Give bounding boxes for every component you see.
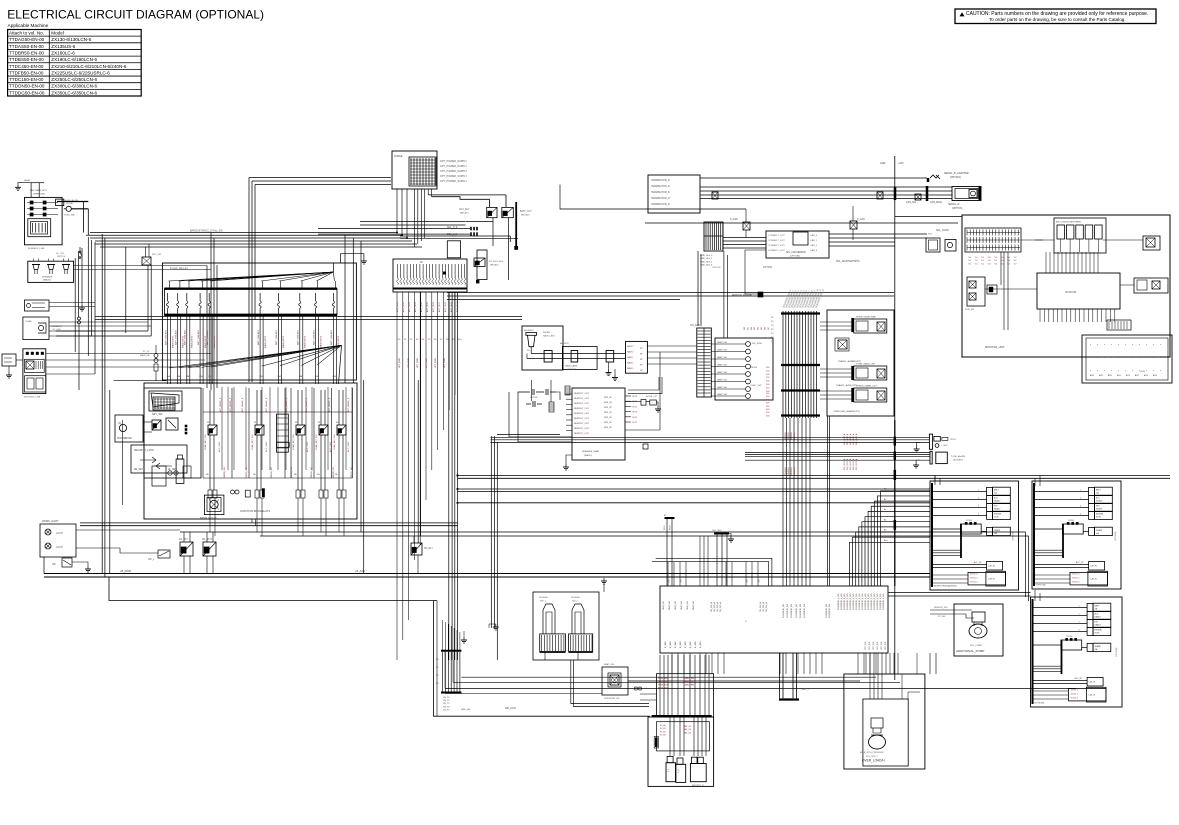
- svg-text:MAIN_KEY2: MAIN_KEY2: [213, 335, 216, 348]
- vertical x364: [363, 380, 365, 574]
- svg-text:ACC_SIG2: ACC_SIG2: [408, 301, 411, 312]
- pedal outputs down: [571, 660, 649, 704]
- svg-text:READY: READY: [994, 508, 1001, 511]
- svg-text:SIG_OUT_A: SIG_OUT_A: [843, 433, 846, 445]
- wires B3 right: [46, 353, 211, 355]
- svg-text:ROW: ROW: [1096, 517, 1101, 519]
- pedal unit outer box: [533, 592, 599, 660]
- svg-text:PRESSURE_SW: PRESSURE_SW: [604, 698, 619, 700]
- svg-text:GND_SIG_1: GND_SIG_1: [700, 258, 713, 260]
- svg-text:o: o: [1118, 344, 1120, 346]
- inner left spine verticals: [74, 258, 76, 352]
- svg-text:RESPULT_OUT: RESPULT_OUT: [574, 398, 590, 400]
- svg-text:LIGHT: LIGHT: [56, 547, 63, 549]
- harness bottom pins: [671, 653, 673, 674]
- svg-text:ACC_RELAY_S: ACC_RELAY_S: [265, 397, 268, 412]
- svg-text:+B_MAIN: +B_MAIN: [120, 569, 131, 573]
- svg-text:BAT_LN: BAT_LN: [684, 731, 692, 734]
- svg-text:o: o: [1132, 370, 1134, 372]
- inline connector r3: [606, 351, 614, 363]
- svg-text:OPT_PWR: OPT_PWR: [417, 358, 419, 368]
- svg-text:FL_B3: FL_B3: [660, 735, 666, 737]
- keypad grid: [149, 391, 182, 411]
- svg-text:MONITOR: MONITOR: [1065, 291, 1077, 294]
- svg-text:SPEAKER_MAIN: SPEAKER_MAIN: [582, 450, 599, 453]
- svg-text:AM_IN(P): AM_IN(P): [560, 342, 569, 345]
- svg-text:+24V: +24V: [898, 162, 904, 165]
- svg-text:ACC_RLY: ACC_RLY: [459, 208, 470, 211]
- svg-text:SOL_ADAPTER*OPTA: SOL_ADAPTER*OPTA: [836, 260, 860, 263]
- svg-text:4: 4: [978, 513, 979, 515]
- svg-text:AUX: AUX: [1144, 374, 1149, 377]
- svg-text:OPT_PWR: OPT_PWR: [426, 358, 428, 368]
- bus 522 corner verticals: [251, 519, 253, 523]
- svg-text:CN_SIG_A: CN_SIG_A: [759, 601, 762, 612]
- relay panel box: [144, 383, 357, 519]
- svg-text:GA: GA: [994, 492, 997, 495]
- svg-text:SIG: SIG: [766, 381, 770, 383]
- fuse panel bus: [652, 715, 712, 717]
- svg-text:ACC_SP: ACC_SP: [1076, 561, 1084, 564]
- svg-text:SWITCH: SWITCH: [57, 256, 66, 258]
- ECU right output chain: [625, 401, 641, 403]
- svg-text:SW_L: SW_L: [148, 559, 155, 561]
- svg-text:FL22: FL22: [670, 525, 672, 530]
- connector strip bottom left: [441, 650, 461, 652]
- svg-text:WIPER_SIG: WIPER_SIG: [224, 466, 226, 478]
- svg-text:S0: S0: [436, 659, 439, 661]
- spine splice nodes: [894, 437, 896, 446]
- svg-text:BATT_RELAY5: BATT_RELAY5: [175, 329, 178, 345]
- svg-text:OUT_SIG: OUT_SIG: [885, 641, 887, 650]
- svg-text:GNDSIG: GNDSIG: [791, 467, 793, 475]
- left spine verticals: [210, 233, 212, 391]
- bundle drops below: [782, 418, 784, 586]
- terminator arrow: [927, 178, 929, 182]
- svg-text:RADIO_ANT: RADIO_ANT: [543, 335, 556, 338]
- radio amp box: [562, 347, 597, 370]
- svg-text:EX_KEYLESS: EX_KEYLESS: [489, 261, 504, 263]
- connector on vert up c4: [743, 222, 750, 230]
- svg-text:SOLENOID_SIG: SOLENOID_SIG: [826, 603, 828, 618]
- svg-text:AUX: AUX: [1126, 374, 1131, 377]
- svg-text:SOLENOID_SIG: SOLENOID_SIG: [796, 603, 798, 618]
- svg-text:SUB_SW: SUB_SW: [965, 309, 975, 311]
- svg-text:CONNECT_OUT: CONNECT_OUT: [768, 250, 785, 252]
- svg-text:ZX130-6/130LCN-6: ZX130-6/130LCN-6: [51, 37, 91, 42]
- option box 3: [1031, 597, 1123, 707]
- svg-text:GND_SIG: GND_SIG: [687, 601, 689, 610]
- svg-text:SIG: SIG: [766, 412, 770, 414]
- svg-text:TTDC450-EN-00: TTDC450-EN-00: [9, 64, 44, 69]
- svg-text:AIR_CON: AIR_CON: [505, 707, 516, 710]
- svg-text:MAIN_KEY2: MAIN_KEY2: [171, 335, 174, 348]
- fanout under connector: [396, 292, 398, 660]
- small box above connector: [447, 241, 460, 258]
- svg-text:GNDSIG: GNDSIG: [785, 467, 787, 475]
- panel right parallel line: [360, 383, 362, 532]
- svg-text:ACC_RELAY_S: ACC_RELAY_S: [219, 397, 222, 412]
- svg-text:Tx6: Tx6: [1007, 257, 1010, 259]
- svg-text:SW_SIDE: SW_SIDE: [752, 343, 762, 345]
- svg-text:(OPTION): (OPTION): [1116, 647, 1118, 657]
- svg-text:TERMINATOR_R: TERMINATOR_R: [651, 179, 670, 182]
- svg-text:P8: P8: [527, 350, 530, 352]
- svg-text:RESPULT_OUT: RESPULT_OUT: [574, 428, 590, 430]
- svg-text:BATT_RELAY5: BATT_RELAY5: [197, 329, 200, 345]
- svg-text:CIGAR: CIGAR: [25, 320, 32, 323]
- wires below transformer: [413, 189, 415, 247]
- svg-text:SIG: SIG: [766, 384, 770, 386]
- svg-text:(RELAY): (RELAY): [460, 212, 469, 215]
- svg-text:SPK_IN: SPK_IN: [604, 412, 612, 414]
- fuse cartridge 2: [676, 764, 686, 782]
- svg-text:5A: 5A: [335, 473, 338, 476]
- pedal A comb: [540, 634, 566, 652]
- relay group pair down: [827, 416, 829, 586]
- svg-text:3: 3: [978, 505, 979, 507]
- long bus y532: [180, 531, 1026, 533]
- left bus lines to top center: [90, 232, 397, 234]
- relay cluster: [208, 425, 217, 435]
- overload feeds: [865, 653, 867, 674]
- svg-text:LIGHT: LIGHT: [56, 533, 63, 535]
- svg-text:SIG_OUT_A: SIG_OUT_A: [855, 433, 858, 445]
- monitor sub box left bottom: [967, 277, 985, 306]
- svg-text:1: 1: [1079, 605, 1080, 607]
- bottom boundary frame: [433, 601, 649, 717]
- svg-text:FUSE_SIG1: FUSE_SIG1: [658, 681, 668, 683]
- svg-text:30A: 30A: [277, 375, 281, 378]
- svg-text:WIPER_SIG: WIPER_SIG: [333, 466, 335, 478]
- monitor main display: [1037, 273, 1120, 309]
- svg-text:RESPULT_OUT: RESPULT_OUT: [574, 433, 590, 435]
- verticals feeding option boxes: [934, 476, 936, 486]
- keyless box B3: [23, 349, 46, 394]
- svg-text:(RADIO): (RADIO): [584, 454, 592, 457]
- cab comb connector: [697, 328, 712, 397]
- svg-text:o: o: [1090, 370, 1092, 372]
- svg-text:OPTION: OPTION: [763, 266, 772, 269]
- svg-text:AUX: AUX: [1099, 374, 1104, 377]
- fuse elements: [167, 293, 169, 301]
- svg-text:Tx3: Tx3: [988, 263, 991, 265]
- svg-text:ENGINE: ENGINE: [1096, 514, 1104, 516]
- svg-text:o: o: [1132, 344, 1134, 346]
- svg-text:(A): (A): [118, 422, 121, 425]
- display bottom pins: [1039, 309, 1041, 322]
- speaker box: [28, 261, 74, 282]
- svg-text:ZX190LC-6/190LCN-6: ZX190LC-6/190LCN-6: [51, 57, 97, 62]
- svg-text:RADIO: RADIO: [627, 351, 634, 354]
- svg-text:GND_SIG: GND_SIG: [669, 601, 671, 610]
- svg-text:TRAVEL_ALM2(OPT): TRAVEL_ALM2(OPT): [836, 384, 858, 387]
- svg-text:ACC_RELAY_S: ACC_RELAY_S: [328, 397, 331, 412]
- svg-text:DIODE: DIODE: [1068, 520, 1075, 522]
- svg-text:ACC_SIG2: ACC_SIG2: [347, 441, 350, 452]
- svg-text:PUSHED: PUSHED: [539, 597, 549, 599]
- svg-text:SIG: SIG: [766, 399, 770, 401]
- svg-text:o: o: [1153, 344, 1155, 346]
- diode D1: [66, 206, 71, 211]
- svg-text:SPEAKER: SPEAKER: [52, 325, 62, 328]
- monitor small boxes top: [1054, 218, 1106, 253]
- svg-text:AUX: AUX: [1135, 374, 1140, 377]
- svg-text:SOL_CONN: SOL_CONN: [936, 230, 949, 232]
- svg-text:RESPULT_OUT: RESPULT_OUT: [574, 423, 590, 425]
- svg-text:BATT_RELAY5: BATT_RELAY5: [206, 329, 209, 345]
- svg-text:SENSOR_SIG: SENSOR_SIG: [934, 607, 948, 609]
- svg-text:SOL: SOL: [928, 234, 933, 236]
- fuse inner box: [164, 289, 337, 315]
- comb right side drops: [723, 251, 725, 338]
- wire corners bottom: [452, 660, 454, 682]
- caution note box: [955, 9, 1156, 24]
- svg-text:(OPTION): (OPTION): [790, 256, 800, 258]
- radio box: [626, 341, 648, 373]
- svg-text:o: o: [1104, 344, 1106, 346]
- sol connector right: [926, 238, 940, 252]
- svg-text:3: 3: [1080, 505, 1081, 507]
- svg-text:AUX: AUX: [1090, 374, 1095, 377]
- svg-text:CN_SIG_A: CN_SIG_A: [713, 601, 716, 612]
- verticals bus to relay panel: [344, 235, 346, 383]
- svg-text:GA: GA: [1095, 648, 1098, 651]
- svg-text:READY: READY: [1096, 508, 1103, 511]
- svg-text:K5: K5: [428, 339, 430, 341]
- svg-text:GND: GND: [880, 162, 886, 165]
- svg-text:K1: K1: [404, 339, 406, 341]
- bus pair y475: [458, 475, 1171, 477]
- svg-text:K10: K10: [458, 339, 461, 341]
- svg-text:BARCO/SYS/ACC_LT/ALL_SIG: BARCO/SYS/ACC_LT/ALL_SIG: [190, 230, 223, 233]
- svg-text:HRN_GB: HRN_GB: [461, 709, 471, 711]
- svg-text:SPEAKER: SPEAKER: [42, 276, 53, 279]
- svg-text:S_CAN: S_CAN: [730, 218, 738, 221]
- monitor sub box bottom right: [1082, 335, 1172, 383]
- svg-text:GA: GA: [1096, 492, 1099, 495]
- wires MCU right: [829, 233, 927, 235]
- svg-text:ACC_SIG6: ACC_SIG6: [432, 301, 435, 312]
- ladder wires option box to harness: [881, 491, 931, 586]
- svg-text:RESPULT_OUT: RESPULT_OUT: [574, 413, 590, 415]
- buzzer circle: [935, 444, 939, 448]
- svg-text:ACC_RELAY_S: ACC_RELAY_S: [229, 397, 232, 412]
- svg-text:ACC: ACC: [994, 497, 999, 500]
- single relay center: [838, 340, 847, 349]
- long bus y536: [260, 535, 1029, 537]
- svg-text:Y_BUZ: Y_BUZ: [941, 445, 948, 447]
- fuse black element: [655, 738, 658, 748]
- svg-text:I_AT_PL: I_AT_PL: [1090, 578, 1098, 581]
- svg-text:GOOD_2: GOOD_2: [1071, 698, 1079, 700]
- svg-text:CN_SIG_A: CN_SIG_A: [710, 601, 713, 612]
- svg-text:SPK_IN: SPK_IN: [604, 402, 612, 404]
- svg-text:CN_CAB: CN_CAB: [690, 324, 700, 327]
- svg-text:B_GND: B_GND: [685, 641, 687, 648]
- svg-text:RESPULT_OUT: RESPULT_OUT: [574, 393, 590, 395]
- svg-text:CAN_3: CAN_3: [810, 249, 818, 252]
- svg-text:GOOD_1: GOOD_1: [970, 578, 978, 580]
- antenna box: [522, 326, 563, 370]
- left long verticals: [101, 234, 103, 574]
- svg-text:B_GND: B_GND: [700, 641, 702, 648]
- inline connector c3: [915, 194, 921, 200]
- svg-text:OUT_SIG: OUT_SIG: [881, 641, 883, 650]
- pump feed wires: [930, 609, 972, 611]
- svg-text:SOLENOID_SIG: SOLENOID_SIG: [787, 603, 789, 618]
- svg-text:ACC_SIG9: ACC_SIG9: [450, 301, 453, 312]
- svg-text:LAMP_SIG: LAMP_SIG: [717, 379, 727, 382]
- svg-text:o: o: [1111, 370, 1113, 372]
- svg-text:SOLENOID_X_SIG: SOLENOID_X_SIG: [856, 593, 858, 610]
- svg-text:SIG: SIG: [766, 403, 770, 405]
- svg-text:GOOD_1: GOOD_1: [1072, 578, 1080, 580]
- option box 2: [1032, 481, 1121, 589]
- svg-text:LAMP_SIG: LAMP_SIG: [717, 371, 727, 374]
- svg-text:A2: A2: [884, 498, 886, 501]
- svg-text:TERMINATOR_R: TERMINATOR_R: [651, 203, 670, 206]
- feeder lines into panel left: [640, 693, 657, 695]
- svg-text:FUSE_30A: FUSE_30A: [64, 214, 75, 217]
- svg-text:ACC_SP: ACC_SP: [974, 561, 982, 564]
- svg-text:BAT_LN: BAT_LN: [684, 725, 692, 728]
- alarm gnd 2: [916, 460, 920, 462]
- svg-text:RADIO: RADIO: [627, 367, 634, 370]
- svg-text:MAIN_KEY2: MAIN_KEY2: [319, 335, 322, 348]
- svg-text:o: o: [745, 620, 747, 623]
- svg-text:30A: 30A: [186, 375, 190, 378]
- relay K0: [152, 420, 161, 430]
- svg-text:ZX225USLC-6/225USRLC-6: ZX225USLC-6/225USRLC-6: [51, 70, 110, 75]
- svg-text:RADIO_AMP: RADIO_AMP: [565, 365, 578, 368]
- svg-text:WIPER_SIG: WIPER_SIG: [311, 466, 313, 478]
- svg-text:o: o: [1097, 370, 1099, 372]
- svg-text:FL_B0: FL_B0: [660, 725, 666, 727]
- svg-text:W4: W4: [758, 326, 760, 330]
- svg-text:JUNCTION BOX/RELAYS: JUNCTION BOX/RELAYS: [240, 509, 270, 513]
- svg-text:AUX: AUX: [1108, 374, 1113, 377]
- svg-text:ACC_SP: ACC_SP: [1075, 677, 1083, 680]
- svg-text:ENGINE: ENGINE: [1095, 630, 1103, 632]
- svg-text:SOLENOID_X_SIG: SOLENOID_X_SIG: [853, 593, 855, 610]
- monitor wires: [1035, 239, 1043, 241]
- svg-text:CN_T2: CN_T2: [443, 703, 450, 705]
- svg-text:TONE_ALARM: TONE_ALARM: [951, 455, 965, 458]
- svg-text:SIG: SIG: [766, 409, 770, 411]
- svg-text:P2: P2: [771, 325, 774, 327]
- wire gnd to fusebox top: [18, 183, 31, 198]
- svg-text:AIR_CONDITIONER PANEL: AIR_CONDITIONER PANEL: [1056, 221, 1082, 224]
- svg-text:I_AT_PL: I_AT_PL: [1088, 681, 1096, 684]
- svg-text:Tx2: Tx2: [981, 260, 984, 262]
- svg-text:CN_SIG_A: CN_SIG_A: [716, 601, 719, 612]
- svg-text:B_GND: B_GND: [670, 641, 672, 648]
- svg-text:*OPTION3: *OPTION3: [1034, 703, 1045, 705]
- corner wires into harness: [656, 558, 772, 586]
- svg-text:FL_B2: FL_B2: [660, 731, 666, 733]
- thick long bus y573: [44, 573, 930, 575]
- svg-text:SW_2: SW_2: [572, 601, 579, 603]
- work light box: [40, 524, 76, 557]
- svg-text:OPT_POWER_SUPPLY: OPT_POWER_SUPPLY: [440, 180, 467, 183]
- svg-text:DIODE: DIODE: [966, 520, 973, 522]
- svg-text:KEY: KEY: [1096, 506, 1101, 508]
- svg-text:MAIN_KEY2: MAIN_KEY2: [191, 335, 194, 348]
- svg-text:FUSEBOX_LINK: FUSEBOX_LINK: [28, 248, 45, 250]
- svg-text:ACC_SIG2: ACC_SIG2: [329, 441, 332, 452]
- svg-text:OPT_POWER_SUPPLY: OPT_POWER_SUPPLY: [440, 170, 467, 173]
- meter box: [115, 415, 143, 442]
- svg-text:GND_SIG: GND_SIG: [693, 601, 695, 610]
- svg-text:GOOD_0: GOOD_0: [970, 574, 978, 576]
- svg-text:SOLENOID_X_SIG: SOLENOID_X_SIG: [877, 593, 879, 610]
- svg-text:OVERLOAD_ALARM(OPT): OVERLOAD_ALARM(OPT): [833, 410, 860, 413]
- svg-text:K2: K2: [410, 339, 412, 341]
- svg-text:BATT: BATT: [1096, 489, 1102, 492]
- svg-text:TTDAG50-EN-00: TTDAG50-EN-00: [9, 37, 45, 42]
- alarm connector bar 2: [930, 451, 932, 464]
- bus y502: [458, 502, 931, 504]
- svg-text:ACC_SIG8: ACC_SIG8: [444, 301, 447, 312]
- svg-text:SOLENOID_X_SIG: SOLENOID_X_SIG: [841, 593, 843, 610]
- angle connector mark: [758, 292, 763, 297]
- pedal B boot: [572, 604, 584, 634]
- svg-text:ACC_RELAY_S: ACC_RELAY_S: [241, 397, 244, 412]
- svg-text:5A: 5A: [317, 473, 320, 476]
- svg-text:OPT_POWER_SUPPLY: OPT_POWER_SUPPLY: [440, 160, 467, 163]
- svg-text:5A: 5A: [294, 473, 297, 476]
- overload box outer: [844, 674, 925, 769]
- svg-text:GOOD_0: GOOD_0: [1072, 574, 1080, 576]
- svg-text:Tx6: Tx6: [1007, 263, 1010, 265]
- fuse output pairs down: [167, 315, 169, 384]
- svg-text:ZX210-6/210LC-6/210LCN-6/240N-: ZX210-6/210LC-6/210LCN-6/240N-6: [51, 64, 127, 69]
- svg-text:30A: 30A: [299, 375, 303, 378]
- cigar box B2: [23, 317, 49, 340]
- left connector into fuse panel: [142, 257, 151, 265]
- svg-text:SOLENOID_X_SIG: SOLENOID_X_SIG: [844, 593, 846, 610]
- svg-text:Tx1: Tx1: [975, 257, 978, 259]
- svg-text:ACC_SIG7: ACC_SIG7: [438, 301, 441, 312]
- svg-text:SOLENOID_SIG: SOLENOID_SIG: [829, 603, 831, 618]
- inline component on sig line: [643, 444, 648, 449]
- svg-text:MAIN_KEY2: MAIN_KEY2: [264, 335, 267, 348]
- svg-text:RESPULT_OUT: RESPULT_OUT: [574, 403, 590, 405]
- svg-text:SIG: SIG: [766, 396, 770, 398]
- svg-text:OUT_SIG: OUT_SIG: [873, 641, 875, 650]
- svg-text:(RADIO): (RADIO): [43, 279, 51, 282]
- svg-text:CN_T4: CN_T4: [443, 709, 450, 711]
- svg-text:CAN_SIG: CAN_SIG: [906, 201, 916, 204]
- needle connector bar: [277, 414, 289, 452]
- svg-text:SIG: SIG: [766, 393, 770, 395]
- radio gnd 2: [614, 369, 616, 375]
- vertical x420 pair: [417, 380, 419, 543]
- key unit sub box: [144, 388, 201, 478]
- lower converging fan: [169, 345, 342, 368]
- svg-text:RADIO: RADIO: [627, 345, 634, 348]
- svg-text:W1: W1: [747, 326, 749, 330]
- svg-text:o: o: [1160, 344, 1162, 346]
- svg-text:CAN_1: CAN_1: [810, 239, 818, 242]
- svg-text:RADIO: RADIO: [627, 362, 634, 365]
- svg-text:Tx1: Tx1: [975, 260, 978, 262]
- svg-text:o: o: [1104, 370, 1106, 372]
- svg-text:ZX250LC-6/250LCN-6: ZX250LC-6/250LCN-6: [51, 77, 97, 82]
- svg-text:CN1: CN1: [747, 579, 749, 583]
- svg-text:TERMINATOR_R: TERMINATOR_R: [651, 185, 670, 188]
